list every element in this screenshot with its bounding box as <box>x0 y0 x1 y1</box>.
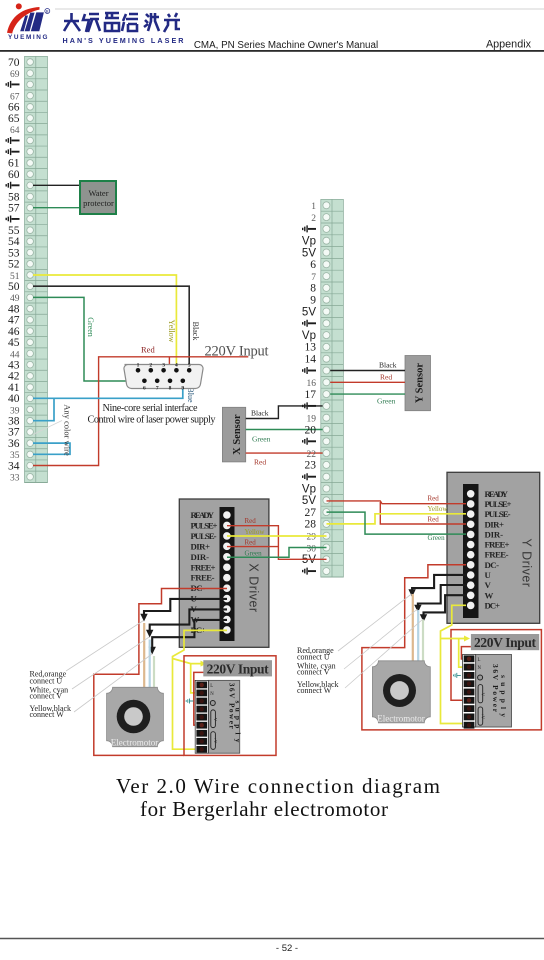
X leader lines <box>66 621 152 713</box>
svg-text:Vp: Vp <box>302 236 316 248</box>
svg-text:2: 2 <box>311 214 316 224</box>
svg-text:69: 69 <box>10 70 20 80</box>
terminal 20 (middle strip) <box>321 434 344 436</box>
svg-text:7: 7 <box>156 386 159 392</box>
svg-text:8: 8 <box>169 386 172 392</box>
wire yellow 51 to DB9 pin4 <box>33 275 176 368</box>
svg-text:L: L <box>478 658 481 663</box>
svg-text:Electromotor: Electromotor <box>377 714 424 724</box>
wire blue branch to 38 <box>33 398 54 420</box>
X 36V supply terminal 5 <box>196 714 207 721</box>
svg-text:Blue: Blue <box>186 387 195 403</box>
terminal 5V (middle strip) <box>321 564 344 566</box>
wire blue DB9 pin9 to 40 <box>33 381 183 398</box>
ground terminal row (middle strip) <box>321 446 344 448</box>
svg-text:Red: Red <box>428 495 440 503</box>
terminal 55 (left strip) <box>25 235 48 237</box>
svg-text:- 52 -: - 52 - <box>276 943 298 954</box>
Y sensor red wire <box>327 381 406 383</box>
X driver DC- red wire and outer loop <box>94 589 227 756</box>
terminal 29 (middle strip) <box>321 541 344 543</box>
svg-text:41: 41 <box>8 382 20 394</box>
X 36V supply terminal strip body <box>195 680 208 753</box>
Y driver V black wire <box>418 585 466 608</box>
svg-text:2: 2 <box>149 363 152 369</box>
Y driver terminal FREE- <box>467 551 475 559</box>
svg-text:7: 7 <box>311 273 316 283</box>
svg-text:34: 34 <box>8 460 20 472</box>
svg-text:5V: 5V <box>302 306 316 318</box>
Y 36V supply terminal 5 <box>464 689 475 696</box>
Y driver terminal DC- <box>467 561 475 569</box>
wire yellow X driver PULSE- to 29 <box>227 535 327 537</box>
X driver terminal FREE- <box>223 574 231 582</box>
svg-text:42: 42 <box>8 371 20 383</box>
logo Chinese characters (stylized blocks) <box>64 13 180 32</box>
terminal 38 (left strip) <box>25 425 48 427</box>
terminal 17 (middle strip) <box>321 399 344 401</box>
svg-text:-V: -V <box>480 691 485 696</box>
terminal 70 (left strip) <box>25 67 48 69</box>
X driver terminal circles <box>223 511 231 634</box>
left terminal strip body <box>25 56 48 482</box>
terminal 27 (middle strip) <box>321 517 344 519</box>
wire red 5V to Y driver PULSE+ and DIR+ <box>327 501 467 524</box>
Y driver pin labels <box>485 489 512 611</box>
terminal 5V (middle strip) <box>321 257 344 259</box>
X driver terminal U <box>223 595 231 603</box>
svg-text:Black: Black <box>191 322 200 341</box>
terminal 9 (middle strip) <box>321 305 344 307</box>
svg-text:connect W: connect W <box>297 686 332 695</box>
svg-text:5V: 5V <box>302 554 316 566</box>
X sensor wire labels <box>251 409 271 467</box>
terminal Vp (middle strip) <box>321 340 344 342</box>
svg-text:W: W <box>485 590 494 600</box>
Y 36V supply terminal 9 <box>464 722 475 729</box>
Y driver terminal U <box>467 571 475 579</box>
Y driver terminal DIR+ <box>467 520 475 528</box>
X driver V black wire <box>150 609 227 632</box>
svg-text:connect V: connect V <box>297 667 330 676</box>
X 36V supply terminal 9 <box>196 746 207 753</box>
terminal 67 (left strip) <box>25 100 48 102</box>
X 36V supply terminal 1 <box>196 682 207 689</box>
X red wire to supply terminal 6 <box>194 672 207 725</box>
X driver terminal V <box>223 605 231 613</box>
wire green 49 to DB9 pin6 <box>33 297 143 381</box>
X driver terminal READY <box>223 511 231 519</box>
terminal 43 (left strip) <box>25 369 48 371</box>
svg-text:36: 36 <box>8 438 20 450</box>
svg-text:Vp: Vp <box>302 330 316 342</box>
ground terminal row (left strip) <box>25 89 48 91</box>
svg-text:PULSE+: PULSE+ <box>485 499 512 509</box>
svg-text:X Driver: X Driver <box>247 563 261 612</box>
svg-text:220V Input: 220V Input <box>205 344 269 360</box>
svg-text:READY: READY <box>485 489 509 499</box>
svg-text:PULSE-: PULSE- <box>485 509 511 519</box>
svg-text:64: 64 <box>10 126 20 136</box>
svg-text:Appendix: Appendix <box>486 39 532 51</box>
X yellow branch to 220V input and N terminal <box>173 659 203 693</box>
terminal 5V (middle strip) <box>321 316 344 318</box>
terminal 45 (left strip) <box>25 347 48 349</box>
svg-text:30: 30 <box>307 544 317 554</box>
svg-text:Y Sensor: Y Sensor <box>414 363 425 403</box>
Y driver terminal DC+ <box>467 602 475 610</box>
left terminal strip grid and circles <box>6 57 47 484</box>
X driver terminal DIR+ <box>223 543 231 551</box>
svg-text:70: 70 <box>8 57 20 69</box>
terminal 54 (left strip) <box>25 246 48 248</box>
DB9 connector body <box>124 364 203 388</box>
water protector black wire <box>33 184 80 186</box>
X 36V supply terminal 4 <box>196 706 207 713</box>
Y leader lines <box>338 594 423 688</box>
svg-text:54: 54 <box>8 236 20 248</box>
svg-text:Green: Green <box>377 397 396 406</box>
terminal 7 (middle strip) <box>321 281 344 283</box>
svg-text:Nine-core serial interface: Nine-core serial interface <box>103 403 198 414</box>
X driver terminal PULSE+ <box>223 522 231 530</box>
ground terminal row (middle strip) <box>321 234 344 236</box>
svg-text:Water: Water <box>88 188 108 198</box>
svg-text:53: 53 <box>8 247 20 259</box>
svg-text:Ver 2.0 Wire connection diagra: Ver 2.0 Wire connection diagram <box>116 774 440 798</box>
logo red swoosh <box>7 3 40 33</box>
svg-text:33: 33 <box>10 474 20 484</box>
terminal 19 (middle strip) <box>321 423 344 425</box>
ground terminal row (middle strip) <box>321 375 344 377</box>
svg-text:L: L <box>210 684 213 689</box>
Y driver wire labels <box>428 495 449 543</box>
terminal 33 (left strip) <box>25 481 48 483</box>
terminal 52 (left strip) <box>25 268 48 270</box>
ground terminal row (left strip) <box>25 224 48 226</box>
svg-text:Red: Red <box>254 458 266 467</box>
svg-text:45: 45 <box>8 337 20 349</box>
Y sensor wire labels <box>377 361 397 406</box>
terminal 22 (middle strip) <box>321 458 344 460</box>
faint scan artifact line top <box>55 8 544 10</box>
svg-text:DIR+: DIR+ <box>485 519 505 529</box>
svg-text:DIR-: DIR- <box>191 552 210 562</box>
svg-text:Electromotor: Electromotor <box>111 738 158 748</box>
X driver pin labels <box>191 510 218 635</box>
svg-text:Control wire of laser power su: Control wire of laser power supply <box>88 415 217 426</box>
svg-text:PULSE-: PULSE- <box>191 531 217 541</box>
wire red 34 to DB9 pin8 <box>33 357 248 466</box>
DB9 pin numbers <box>137 363 191 392</box>
terminal 57 (left strip) <box>25 212 48 214</box>
Y sensor green wire <box>327 393 406 395</box>
ground terminal row (left strip) <box>25 145 48 147</box>
wire red X driver PULSE+/DIR+ to 5V <box>227 526 327 560</box>
svg-text:connect W: connect W <box>30 710 65 719</box>
Y red wire to terminal 1 <box>461 647 471 659</box>
X driver terminal DC+ <box>223 626 231 634</box>
ground terminal row (left strip) <box>25 156 48 158</box>
svg-text:Red: Red <box>245 517 257 525</box>
terminal 50 (left strip) <box>25 291 48 293</box>
X driver U black wire <box>144 599 227 617</box>
terminal 47 (left strip) <box>25 324 48 326</box>
svg-text:X Sensor: X Sensor <box>232 414 243 455</box>
Y 36V supply terminal 4 <box>464 680 475 687</box>
Y 36V supply terminal 6 <box>464 697 475 704</box>
svg-text:Green: Green <box>86 317 95 337</box>
Y driver terminal DIR- <box>467 531 475 539</box>
wire blue loop 36-35 <box>33 443 70 454</box>
ground terminal row (middle strip) <box>321 411 344 413</box>
Y yellow branch to 220V input and N terminal <box>441 639 468 668</box>
svg-text:Green: Green <box>428 534 446 542</box>
Y 36V supply terminal 1 <box>464 655 475 662</box>
svg-text:9: 9 <box>181 386 184 392</box>
svg-text:Green: Green <box>252 435 271 444</box>
terminal 58 (left strip) <box>25 201 48 203</box>
svg-text:27: 27 <box>305 507 317 519</box>
terminal 2 (middle strip) <box>321 222 344 224</box>
terminal 60 (left strip) <box>25 179 48 181</box>
terminal 36 (left strip) <box>25 448 48 450</box>
DB9 pins bottom row <box>142 379 185 384</box>
svg-text:3: 3 <box>162 363 165 369</box>
svg-text:READY: READY <box>191 510 215 520</box>
X driver wire labels <box>245 517 266 558</box>
svg-text:PULSE+: PULSE+ <box>191 520 218 530</box>
Y driver terminal PULSE+ <box>467 500 475 508</box>
header rule <box>0 50 544 52</box>
svg-text:FREE-: FREE- <box>191 573 215 583</box>
Y driver terminal FREE+ <box>467 541 475 549</box>
svg-text:1: 1 <box>137 363 140 369</box>
wire green 27 to Y driver DIR- <box>327 512 467 534</box>
X supply ground symbol <box>186 699 193 704</box>
X assembly red outline box <box>184 656 276 756</box>
X sensor red wire to 22 <box>246 452 327 454</box>
svg-text:4: 4 <box>175 363 178 369</box>
svg-text:60: 60 <box>8 169 20 181</box>
svg-text:16: 16 <box>307 379 317 389</box>
terminal 69 (left strip) <box>25 78 48 80</box>
ground terminal row (middle strip) <box>321 328 344 330</box>
svg-text:46: 46 <box>8 326 20 338</box>
svg-text:17: 17 <box>305 389 317 401</box>
Y driver terminal V <box>467 581 475 589</box>
svg-text:connect V: connect V <box>30 692 63 701</box>
svg-text:28: 28 <box>305 519 317 531</box>
X 36V supply terminal 8 <box>196 738 207 745</box>
X driver DC+ yellow wire <box>173 630 228 749</box>
svg-text:Vp: Vp <box>302 483 316 495</box>
svg-text:Yellow: Yellow <box>428 505 449 513</box>
terminal 30 (middle strip) <box>321 552 344 554</box>
Y 36V power supply body <box>476 655 512 728</box>
middle terminal strip body <box>321 199 344 577</box>
svg-text:58: 58 <box>8 191 20 203</box>
wire green X driver DIR- to 30 <box>227 548 327 558</box>
X 36V supply terminal 7 <box>196 730 207 737</box>
terminal 8 (middle strip) <box>321 293 344 295</box>
X driver box <box>179 499 269 647</box>
svg-text:65: 65 <box>8 113 20 125</box>
svg-text:19: 19 <box>307 415 317 425</box>
Y sensor black wire <box>327 370 406 372</box>
terminal 16 (middle strip) <box>321 387 344 389</box>
svg-text:220V Input: 220V Input <box>474 635 537 650</box>
terminal 66 (left strip) <box>25 111 48 113</box>
terminal Vp (middle strip) <box>321 246 344 248</box>
X driver W black wire <box>152 620 227 650</box>
svg-text:N: N <box>210 692 214 697</box>
terminal 42 (left strip) <box>25 380 48 382</box>
X driver terminal DC- <box>223 584 231 592</box>
svg-text:20: 20 <box>305 424 317 436</box>
Y driver DC+ yellow wire <box>441 605 468 723</box>
X annotation labels <box>30 670 72 719</box>
Y driver terminal W <box>467 592 475 600</box>
svg-text:48: 48 <box>8 303 20 315</box>
terminal 65 (left strip) <box>25 123 48 125</box>
Y 36V supply terminal 8 <box>464 714 475 721</box>
X 36V supply terminal 6 <box>196 722 207 729</box>
X driver terminal FREE+ <box>223 563 231 571</box>
svg-text:DC-: DC- <box>485 560 500 570</box>
Y 220V input box <box>471 634 539 650</box>
Y driver DC- red wire and outer loop <box>362 565 542 730</box>
svg-text:8: 8 <box>310 283 316 295</box>
logo blue M mark <box>20 12 44 31</box>
X sensor box <box>222 407 245 462</box>
X 36V supply terminal 3 <box>196 698 207 705</box>
svg-text:U: U <box>485 570 492 580</box>
svg-text:for Bergerlahr electromotor: for Bergerlahr electromotor <box>140 797 388 821</box>
svg-text:6: 6 <box>143 386 146 392</box>
svg-text:Black: Black <box>379 361 397 370</box>
svg-text:57: 57 <box>8 203 20 215</box>
svg-text:DC+: DC+ <box>485 600 501 610</box>
Y driver W black wire <box>424 595 467 617</box>
svg-text:29: 29 <box>307 533 317 543</box>
Y driver box <box>447 472 540 623</box>
terminal 51 (left strip) <box>25 280 48 282</box>
svg-text:Any color wire: Any color wire <box>63 404 73 456</box>
svg-text:5V: 5V <box>302 495 316 507</box>
svg-text:Green: Green <box>245 550 263 558</box>
svg-text:66: 66 <box>8 102 20 114</box>
svg-text:connect U: connect U <box>297 652 330 661</box>
Y 36V supply terminal strip body <box>463 655 476 728</box>
svg-text:CMA, PN Series Machine Owner's: CMA, PN Series Machine Owner's Manual <box>194 40 378 51</box>
X sensor green wire to 20 <box>246 429 327 431</box>
terminal 53 (left strip) <box>25 257 48 259</box>
X driver terminal W <box>223 616 231 624</box>
svg-text:55: 55 <box>8 225 20 237</box>
svg-text:R: R <box>46 9 49 14</box>
svg-text:FREE+: FREE+ <box>485 540 510 550</box>
svg-text:47: 47 <box>8 315 20 327</box>
terminal Vp (middle strip) <box>321 493 344 495</box>
terminal 39 (left strip) <box>25 414 48 416</box>
svg-text:14: 14 <box>305 354 317 366</box>
svg-text:Black: Black <box>251 409 269 418</box>
terminal 40 (left strip) <box>25 403 48 405</box>
terminal 6 (middle strip) <box>321 269 344 271</box>
terminal 28 (middle strip) <box>321 529 344 531</box>
X driver terminal PULSE- <box>223 532 231 540</box>
svg-text:-V: -V <box>213 716 218 721</box>
X 220V input box <box>203 660 272 676</box>
svg-text:DIR+: DIR+ <box>191 541 211 551</box>
DB9 pins top row <box>136 368 192 373</box>
terminal 48 (left strip) <box>25 313 48 315</box>
svg-text:5V: 5V <box>302 247 316 259</box>
water protector green wire <box>33 207 80 209</box>
X 36V supply -V slot <box>211 710 216 728</box>
Y electromotor <box>372 661 430 724</box>
svg-text:6: 6 <box>310 259 316 271</box>
Y supply terminal strip <box>463 655 486 729</box>
Y 36V supply -V slot <box>478 685 483 703</box>
terminal 49 (left strip) <box>25 302 48 304</box>
terminal 41 (left strip) <box>25 392 48 394</box>
terminal 34 (left strip) <box>25 470 48 472</box>
Y motor thin leads <box>413 594 423 661</box>
svg-text:+V: +V <box>213 738 218 745</box>
terminal 61 (left strip) <box>25 167 48 169</box>
footer rule <box>0 938 544 940</box>
svg-text:37: 37 <box>8 427 20 439</box>
X sensor black wire to gnd row <box>246 406 327 419</box>
svg-text:220V Input: 220V Input <box>207 661 270 676</box>
Y 36V supply terminal 2 <box>464 664 475 671</box>
terminal 44 (left strip) <box>25 358 48 360</box>
leader line any-color-wire to 37 <box>33 421 62 435</box>
svg-text:Y Driver: Y Driver <box>519 539 533 588</box>
X supply terminal strip <box>195 680 218 753</box>
svg-text:9: 9 <box>310 295 316 307</box>
svg-text:V: V <box>485 580 492 590</box>
svg-text:61: 61 <box>8 158 20 170</box>
terminal 5V (middle strip) <box>321 505 344 507</box>
X motor thin leads <box>144 623 154 687</box>
logo registered mark <box>45 9 50 14</box>
Y 36V supply +V slot <box>478 707 483 725</box>
svg-text:FREE-: FREE- <box>485 550 509 560</box>
svg-text:connect U: connect U <box>30 676 63 685</box>
X 36V supply +V slot <box>211 732 216 750</box>
svg-text:Red: Red <box>428 516 440 524</box>
terminal 23 (middle strip) <box>321 470 344 472</box>
Y sensor box <box>405 356 431 411</box>
Y 36V supply terminal 3 <box>464 672 475 679</box>
svg-text:36V Power: 36V Power <box>491 664 500 713</box>
Y supply ground symbol <box>454 673 461 678</box>
Y 36V supply terminal 7 <box>464 705 475 712</box>
svg-text:protector: protector <box>83 198 114 208</box>
svg-text:HAN'S YUEMING LASER: HAN'S YUEMING LASER <box>63 36 185 45</box>
svg-text:DIR-: DIR- <box>485 529 504 539</box>
X electromotor <box>107 687 164 747</box>
svg-text:22: 22 <box>307 450 317 460</box>
svg-text:Red: Red <box>380 373 392 382</box>
Y driver terminal circles <box>467 490 475 609</box>
svg-text:Red: Red <box>141 345 155 355</box>
terminal 13 (middle strip) <box>321 352 344 354</box>
X 36V supply terminal 2 <box>196 690 207 697</box>
